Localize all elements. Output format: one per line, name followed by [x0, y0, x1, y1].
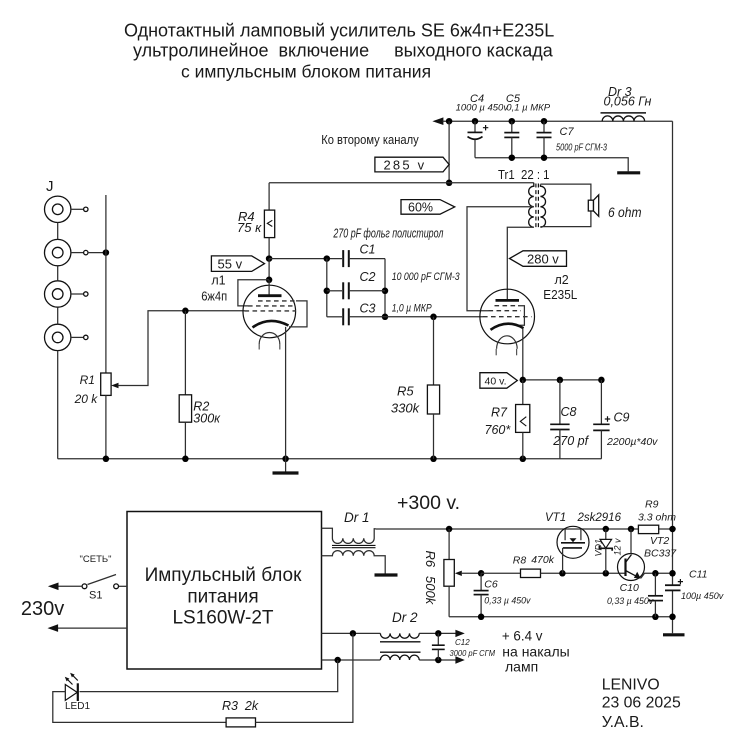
- callout 55 v: [211, 256, 264, 272]
- PSU box LS160W-2T: [127, 512, 322, 670]
- inductor Dr1 common-mode choke: [322, 510, 386, 574]
- wire L1 cathode to ground rail: [285, 327, 287, 459]
- svg-text:"СЕТЬ": "СЕТЬ": [80, 554, 112, 565]
- capacitor C11 100u 450v electrolytic: [665, 569, 724, 602]
- triode-strap bracket g2 to anode of L1: [238, 280, 269, 306]
- resistor R6 500k potentiometer: [423, 529, 454, 617]
- svg-text:+ 6.4 v: + 6.4 v: [502, 628, 543, 643]
- wire R3 to upper heater line: [256, 633, 353, 722]
- wire cap bank right rail: [382, 259, 389, 320]
- label +300 v: [397, 492, 460, 514]
- svg-text:285 v: 285 v: [384, 158, 427, 173]
- capacitor C8 270pf: [550, 380, 589, 459]
- ground symbol Dr1: [375, 573, 398, 576]
- transistor VT1 2sk2916 mosfet: [545, 512, 622, 573]
- svg-text:C6: C6: [484, 579, 498, 591]
- wire cathode node 40v: [520, 377, 605, 384]
- wire +300v rail: [376, 526, 676, 533]
- vacuum tube L1 6zh4p: [201, 274, 307, 350]
- wire UL tap 60% to L2 screen: [467, 207, 534, 311]
- svg-text:60%: 60%: [408, 200, 433, 214]
- switch S1: [80, 554, 128, 602]
- transformer Tr1 22:1: [498, 168, 550, 230]
- wire cap bank left rail: [324, 259, 331, 317]
- wire mains line 2 with arrow: [48, 624, 128, 632]
- node anode of L1 / R4 junction: [266, 255, 273, 283]
- svg-text:230v: 230v: [21, 598, 64, 620]
- svg-text:на накалы: на накалы: [502, 643, 569, 659]
- svg-text:R5: R5: [397, 384, 414, 399]
- svg-text:1,0 µ МКР: 1,0 µ МКР: [392, 302, 433, 314]
- wire LED return loop: [53, 692, 226, 723]
- svg-text:C12: C12: [455, 638, 470, 647]
- svg-text:75 к: 75 к: [237, 220, 262, 235]
- svg-text:470k: 470k: [531, 554, 555, 566]
- svg-text:5000 pF СГМ-3: 5000 pF СГМ-3: [556, 143, 607, 154]
- wire jack2 to signal line: [88, 249, 109, 256]
- node J input jacks label: [46, 178, 54, 195]
- label +6.4v heater supply: [502, 628, 570, 674]
- svg-text:Dr 1: Dr 1: [344, 510, 370, 525]
- svg-text:0,1 µ МКР: 0,1 µ МКР: [506, 103, 550, 114]
- svg-text:л2: л2: [555, 273, 569, 287]
- connector jack J4: [45, 324, 89, 350]
- transistor VT2 BC337: [618, 529, 678, 581]
- capacitor C3: [327, 302, 432, 326]
- svg-text:C7: C7: [560, 126, 575, 138]
- svg-text:100µ 450v: 100µ 450v: [681, 591, 724, 601]
- svg-text:6 ohm: 6 ohm: [608, 205, 642, 220]
- wire primary bottom to L2 anode: [507, 227, 534, 300]
- resistor R4 75k plate load: [237, 183, 275, 259]
- svg-text:R7: R7: [491, 406, 508, 420]
- svg-text:55 v: 55 v: [218, 256, 243, 271]
- wire gate rail: [559, 570, 625, 577]
- wire anode node to coupling caps: [269, 255, 342, 262]
- svg-text:R3 2k: R3 2k: [222, 699, 259, 713]
- svg-text:R6: R6: [423, 551, 438, 568]
- svg-text:20 k: 20 k: [74, 392, 99, 406]
- svg-text:VT1: VT1: [545, 512, 566, 524]
- wire filter caps bottom rail: [475, 154, 628, 171]
- svg-text:VD1: VD1: [594, 539, 604, 557]
- svg-text:330k: 330k: [391, 401, 421, 416]
- ground symbol under tube cathode: [273, 459, 299, 473]
- wire secondary loop to speaker: [540, 184, 591, 227]
- wire ground rail: [58, 456, 602, 463]
- svg-text:760*: 760*: [485, 423, 512, 437]
- connector jack J2: [45, 239, 89, 265]
- ground symbol filter caps: [617, 171, 640, 174]
- svg-text:R9: R9: [645, 499, 659, 511]
- vacuum tube L2 E235L: [480, 273, 577, 355]
- wire B+ top rail to other channel: [432, 117, 672, 125]
- svg-text:Dr 2: Dr 2: [392, 610, 418, 625]
- svg-text:Импульсный блок: Импульсный блок: [145, 565, 303, 586]
- svg-text:3000 pF СГМ: 3000 pF СГМ: [450, 648, 496, 658]
- svg-text:270 pf: 270 pf: [552, 434, 589, 448]
- svg-text:BC337: BC337: [644, 548, 677, 560]
- resistor R3 2k: [222, 699, 259, 727]
- svg-text:23 06 2025: 23 06 2025: [602, 695, 681, 712]
- inductor Dr2 common-mode choke: [380, 610, 421, 660]
- svg-text:12 v: 12 v: [613, 538, 623, 556]
- svg-text:C1: C1: [360, 243, 376, 257]
- svg-text:C9: C9: [614, 411, 630, 425]
- svg-text:280 v: 280 v: [527, 251, 559, 266]
- callout 60%: [401, 200, 455, 215]
- svg-text:R8: R8: [513, 555, 527, 567]
- wire R6 wiper node: [455, 570, 485, 577]
- resistor R8 470k: [481, 554, 562, 578]
- wire R1 wiper to grid node: [111, 311, 244, 389]
- svg-text:LS160W-2T: LS160W-2T: [172, 608, 273, 629]
- LED LED1: [65, 660, 338, 712]
- svg-text:40 v.: 40 v.: [485, 376, 507, 388]
- svg-text:Ко второму каналу: Ко второму каналу: [321, 132, 419, 147]
- svg-text:0,33 µ 450v: 0,33 µ 450v: [607, 596, 654, 606]
- capacitor C4 1000u 450v electrolytic: [456, 93, 510, 158]
- svg-text:LED1: LED1: [65, 701, 90, 712]
- svg-text:LENIVO: LENIVO: [602, 676, 660, 693]
- wire signal vertical: [105, 195, 107, 373]
- svg-text:C2: C2: [360, 270, 376, 284]
- svg-text:Tr1 22 : 1: Tr1 22 : 1: [498, 168, 550, 182]
- svg-text:1000 µ 450v: 1000 µ 450v: [456, 103, 510, 114]
- svg-text:питания: питания: [187, 587, 258, 608]
- speaker 6 ohm: [588, 195, 641, 220]
- capacitor C6 0.33u 450v: [474, 573, 531, 617]
- ground symbol C11: [663, 633, 685, 636]
- callout 40 v: [480, 373, 517, 389]
- svg-text:2200µ*40v: 2200µ*40v: [606, 436, 658, 448]
- svg-text:C8: C8: [561, 405, 577, 419]
- wire mains line 1 with arrow: [48, 583, 82, 591]
- TITLE: [124, 21, 554, 82]
- capacitor C12 3000pF: [432, 633, 496, 660]
- heater output line upper 6.4v: [322, 630, 465, 637]
- svg-text:6ж4п: 6ж4п: [201, 288, 227, 303]
- label Ko vtoromu kanalu: [321, 132, 419, 147]
- svg-text:0,056 Гн: 0,056 Гн: [604, 95, 652, 109]
- capacitor C2: [327, 270, 461, 299]
- wire 285v rail: [269, 182, 534, 184]
- heater output line lower: [322, 656, 465, 663]
- svg-text:C11: C11: [689, 569, 707, 581]
- svg-text:Однотактный ламповый усилитель: Однотактный ламповый усилитель SE 6ж4п+E…: [124, 21, 554, 41]
- svg-text:E235L: E235L: [543, 287, 577, 302]
- label LENIVO date: [602, 676, 681, 731]
- resistor R2 300k: [179, 308, 221, 459]
- svg-text:R1: R1: [80, 373, 95, 387]
- svg-text:S1: S1: [89, 590, 102, 602]
- label 270 pF foil polystyrene: [333, 226, 444, 240]
- svg-text:C3: C3: [360, 302, 376, 316]
- svg-text:500k: 500k: [423, 576, 438, 606]
- wire regulator bottom rail: [449, 614, 676, 621]
- label 230v: [21, 598, 64, 620]
- capacitor C7 5000pF SGM-3: [537, 121, 608, 158]
- wire L2 cathode down: [522, 329, 524, 380]
- callout 280 v: [510, 251, 567, 266]
- wire right vertical B+ feed: [672, 121, 674, 633]
- resistor R9 3.3 ohm: [638, 499, 676, 534]
- capacitor C10 0.33u 450v: [607, 573, 663, 617]
- svg-text:ламп: ламп: [505, 658, 538, 674]
- resistor R5 330k grid leak: [391, 317, 440, 459]
- svg-text:+300 v.: +300 v.: [397, 492, 460, 514]
- svg-text:VT2: VT2: [650, 535, 669, 547]
- svg-text:ультролинейное включение: ультролинейное включение выходного каска…: [133, 41, 554, 61]
- svg-text:0,33 µ 450v: 0,33 µ 450v: [484, 596, 531, 606]
- svg-text:270 pF фольг полистирол: 270 pF фольг полистирол: [333, 226, 444, 240]
- zener diode VD1 12v: [594, 529, 623, 573]
- capacitor C1: [343, 243, 385, 268]
- resistor R7 760 cathode bias: [485, 380, 530, 459]
- svg-text:300к: 300к: [193, 412, 221, 426]
- wire coupling node to L2 grid: [385, 314, 483, 321]
- svg-text:10 000 pF СГМ-3: 10 000 pF СГМ-3: [392, 271, 461, 283]
- svg-text:У.А.В.: У.А.В.: [602, 714, 644, 731]
- svg-text:л1: л1: [211, 274, 225, 288]
- capacitor C5 0.1u MKP: [504, 93, 550, 158]
- connector jack J1: [45, 196, 89, 222]
- svg-text:J: J: [46, 178, 54, 195]
- callout 285 v: [375, 157, 449, 172]
- svg-text:3.3 ohm: 3.3 ohm: [638, 512, 676, 524]
- connector jack J3: [45, 281, 89, 307]
- capacitor C9 2200u 40v electrolytic: [593, 380, 658, 459]
- wire top rail drop to 285v rail: [446, 121, 453, 186]
- svg-text:C10: C10: [620, 582, 639, 594]
- inductor Dr3 0.056 H: [601, 85, 652, 121]
- svg-text:с импульсным блоком питания: с импульсным блоком питания: [181, 62, 431, 82]
- wire jack shells chain to ground: [57, 223, 59, 459]
- resistor R1 potentiometer 20k: [74, 373, 112, 459]
- svg-text:2sk2916: 2sk2916: [577, 512, 622, 524]
